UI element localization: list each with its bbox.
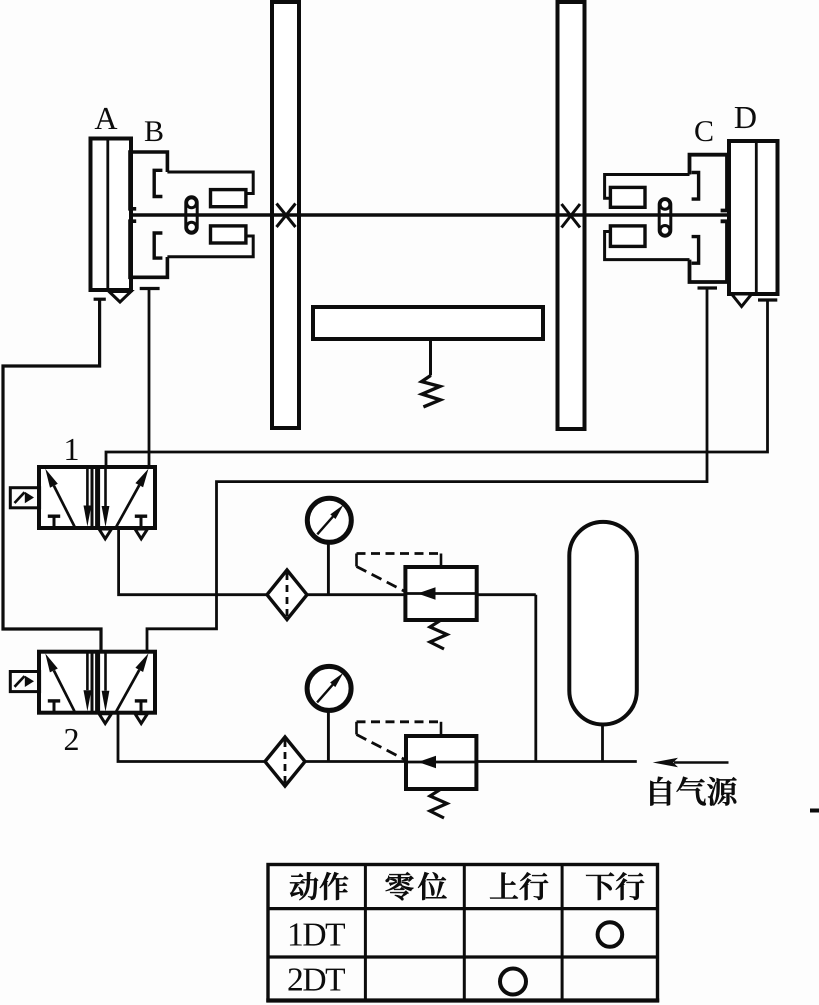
- valve 2 left cell blocked port: [48, 701, 60, 712]
- piston rod: [109, 213, 756, 216]
- wire supply to valve 2: [118, 713, 637, 762]
- valve 1 right cell down arrow: [104, 468, 107, 506]
- wire B to valve 1: [148, 290, 151, 467]
- air receiver accumulator: [569, 522, 637, 725]
- accumulator stem: [601, 725, 604, 762]
- port tick D: [758, 298, 777, 301]
- table header xiaxing: [586, 873, 614, 901]
- wire branch down: [534, 595, 537, 762]
- cylinder body A: [91, 139, 132, 291]
- regulator R1 spring: [430, 620, 447, 649]
- rod cross mark right: [562, 204, 581, 228]
- guide column left: [272, 2, 299, 428]
- air source arrow: [653, 758, 729, 768]
- valve 1 left cell down arrow: [86, 468, 89, 506]
- crossbar platen: [313, 307, 543, 339]
- pressure regulator R2: [406, 736, 476, 789]
- regulator R2 pilot line: [357, 722, 442, 761]
- valve 2 left cell down arrow: [86, 653, 89, 691]
- wire valve 1 to D: [106, 302, 768, 467]
- table header shangxing: [490, 873, 518, 899]
- table mark circle 1DT down: [598, 922, 623, 947]
- valve 2 left cell flow arrow: [54, 670, 75, 711]
- regulator R2 spring: [430, 789, 447, 818]
- cylinder A divider: [106, 139, 109, 291]
- scan mark bottom right: [810, 809, 819, 813]
- claw top right: [692, 173, 699, 200]
- brake pad right bottom: [610, 226, 645, 247]
- valve 2 label: [65, 729, 78, 750]
- wire A to valve 2: [3, 301, 101, 652]
- port tick B: [140, 287, 160, 290]
- cylinder D divider: [755, 141, 758, 294]
- bracket C housing: [690, 155, 728, 282]
- valve 1 exhaust triangle left: [99, 529, 112, 539]
- platen stem: [429, 339, 432, 375]
- claw bottom left: [154, 233, 162, 258]
- port tick A: [94, 298, 106, 301]
- wire supply to valve 1: [119, 529, 536, 595]
- valve 2 right cell flow arrow: [115, 670, 139, 714]
- label C: [695, 121, 712, 141]
- bottom arm right: [605, 232, 690, 260]
- valve 1 left cell flow arrow: [54, 486, 75, 527]
- filter F2: [265, 737, 305, 786]
- table cell 2DT: [288, 968, 345, 990]
- valve 2 right cell blocked port: [135, 701, 147, 713]
- table header lingwei: [386, 872, 414, 900]
- wire valve 2 to C: [147, 290, 707, 652]
- top arm left: [167, 172, 253, 194]
- gauge stem 2: [327, 711, 330, 762]
- link right: [659, 199, 671, 237]
- gauge stem 1: [327, 544, 330, 595]
- rod cross mark left: [277, 204, 296, 228]
- label B: [145, 121, 163, 141]
- claw top left: [154, 170, 162, 196]
- table mark circle 2DT up: [500, 969, 526, 995]
- air source label: [650, 777, 671, 806]
- regulator R1 pilot line: [357, 554, 442, 593]
- exhaust triangle under A: [109, 292, 131, 303]
- valve 1 right cell flow arrow: [115, 485, 139, 529]
- table cell 1DT: [290, 923, 345, 945]
- solenoid coil 1DT: [10, 488, 39, 508]
- solenoid valve 2 body: [39, 652, 155, 713]
- platen spring: [422, 375, 441, 407]
- cylinder body D: [729, 141, 778, 294]
- pressure regulator R1: [405, 567, 476, 620]
- bottom arm left: [167, 236, 253, 257]
- label A: [95, 108, 118, 129]
- brake pad left bottom: [211, 226, 246, 243]
- valve 1 left cell blocked port: [48, 516, 60, 527]
- label D: [735, 107, 756, 128]
- valve 2 exhaust triangle right: [135, 714, 148, 724]
- valve 1 exhaust triangle right: [135, 529, 148, 539]
- guide column right: [558, 2, 585, 429]
- filter F1: [267, 570, 307, 620]
- pressure gauge G2: [307, 666, 351, 710]
- truth table grid: [266, 865, 659, 1001]
- exhaust triangle under D: [732, 294, 752, 307]
- valve 1 right cell blocked port: [135, 516, 147, 528]
- solenoid coil 2DT: [10, 672, 39, 692]
- bracket B housing: [130, 152, 167, 277]
- valve 1 label: [66, 439, 77, 460]
- pressure gauge G1: [307, 498, 351, 542]
- valve 2 exhaust triangle left: [99, 714, 112, 724]
- claw bottom right: [692, 237, 699, 264]
- top arm right: [605, 175, 690, 199]
- brake pad right top: [610, 187, 645, 207]
- link left: [186, 197, 197, 233]
- table header dongzuo: [290, 872, 318, 900]
- valve 2 right cell down arrow: [104, 653, 107, 691]
- brake pad left top: [211, 190, 246, 207]
- solenoid valve 1 body: [39, 467, 155, 528]
- port tick C: [698, 286, 718, 289]
